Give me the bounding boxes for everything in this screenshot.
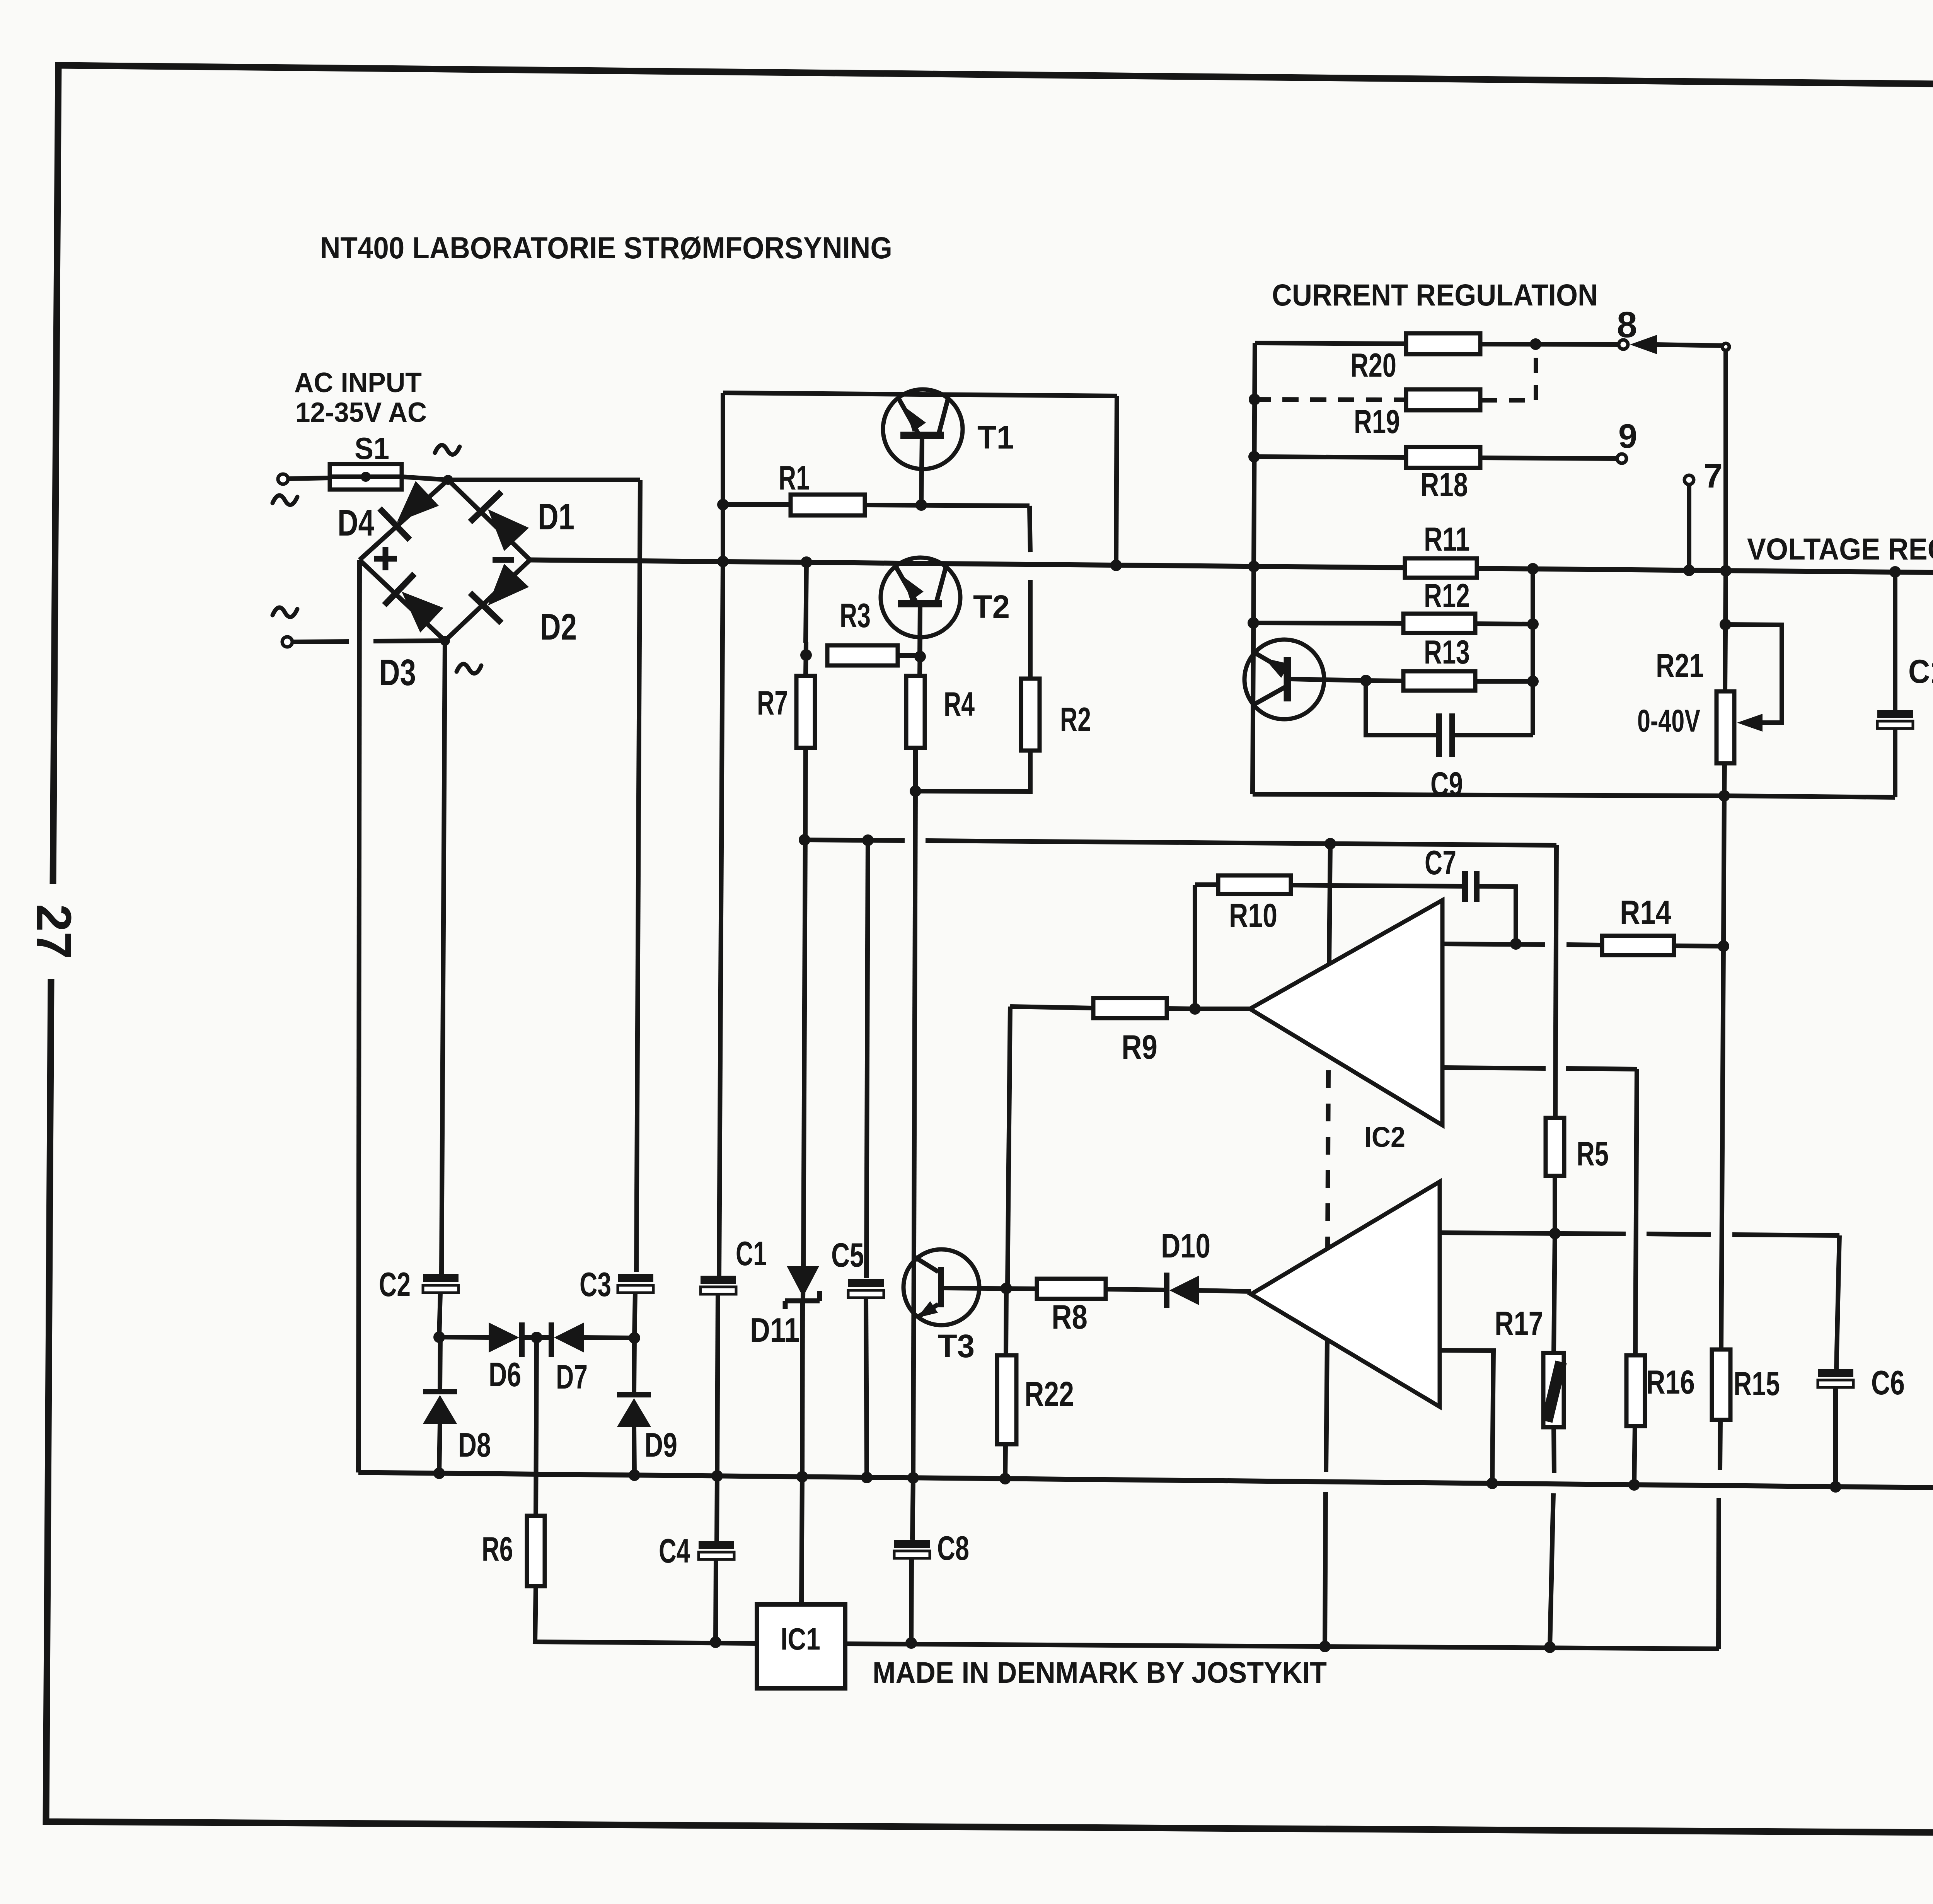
wire T2 base down to R4 [920,635,920,676]
terminal 7 [1684,475,1694,485]
wire opamp2 plus row (hops R16 and R21 lines) [1440,1233,1626,1234]
svg-text:IC2: IC2 [1364,1121,1405,1153]
node R19 rail [1249,394,1260,405]
tilde at bridge bottom [457,664,481,674]
zener diode D11 [803,1268,803,1298]
node bus/C10 [1889,566,1901,578]
wire opamp2 apex out [1249,1292,1253,1294]
svg-text:R7: R7 [757,684,788,722]
svg-text:R6: R6 [482,1530,513,1568]
node bus/R21 [1720,565,1732,577]
wire AC upper to fuse [288,478,330,479]
diode D2 [488,564,529,606]
wire R19 row (dashed) [1255,399,1407,400]
capacitor C3 [618,1274,653,1282]
resistor R13 [1403,671,1475,691]
op-amp IC2a [1250,900,1442,1125]
wire R9 left down to R8 node [1007,1007,1010,1288]
node top wire / R10C7 [1324,838,1336,850]
wire R1 to R2 (hops bus) [1030,506,1030,552]
transistor T1 [883,389,963,469]
svg-text:C5: C5 [831,1236,864,1274]
wire AC lower to bridge bottom [292,641,349,642]
wire output node to opamp1 apex [1195,1007,1250,1011]
svg-text:R13: R13 [1424,634,1470,671]
node R5/R17/opamp2 plus [1549,1228,1561,1239]
wire corner down to C3 [636,480,640,1272]
wire loop right vertical [1116,396,1117,565]
svg-text:C7: C7 [1425,843,1456,882]
svg-text:C10: C10 [1908,653,1933,690]
wire IC2 V- to IC1 (hops bottom bus) [1326,1340,1327,1472]
svg-text:CURRENT REGULATION: CURRENT REGULATION [1272,278,1598,312]
wiper arrow R21 [1737,714,1763,732]
wire R13 row [1366,681,1403,681]
node R8/R22 [1001,1283,1012,1294]
resistor R8 [1037,1279,1106,1299]
wire main bus (bridge minus to terminal 0) [530,560,1933,575]
node R4/R2 junction [910,785,921,797]
transistor T3 [903,1249,979,1325]
svg-text:D7: D7 [556,1358,588,1396]
resistor R12 [1403,614,1475,633]
wire fuse to bridge top [402,477,448,480]
node bus/opamp2 minus [1486,1477,1498,1489]
svg-text:D10: D10 [1161,1227,1210,1265]
svg-text:VOLTAGE REGULATION: VOLTAGE REGULATION [1747,532,1933,566]
svg-text:T1: T1 [977,419,1014,456]
wire C9 right leg [1454,733,1533,737]
tilde lower input [273,607,297,617]
capacitor C10 [1893,572,1897,710]
node bus/R7 [801,556,812,568]
wire R21 line continues down [1721,796,1724,1350]
wire bus to C4 [717,1476,717,1541]
wire opamp1 minus row (hops R5 line) [1442,1068,1546,1068]
diode D3 [402,592,443,633]
node R18 rail [1248,451,1260,462]
svg-text:D8: D8 [458,1426,491,1464]
wire block rail (left) [1253,343,1255,794]
svg-text:R17: R17 [1495,1305,1543,1342]
wire T1 collector loop top [723,393,1117,396]
wire R10 branch vertical [1193,885,1197,1009]
node wiper/top [1720,619,1731,630]
diode D7 [549,1322,554,1357]
wire R8 to D10 [1106,1289,1165,1290]
resistor R1 [791,495,865,515]
wire D6 bar to middle [522,1335,551,1340]
node bus/D9 [629,1469,640,1481]
capacitor C2 [423,1274,459,1282]
wire C1 line (loop left down to C4) [719,561,723,1276]
node C2/D6 [433,1331,445,1343]
svg-text:C4: C4 [659,1532,690,1570]
wire R12 row [1253,623,1403,623]
svg-text:D3: D3 [379,652,416,693]
transistor T2 [881,558,960,637]
svg-text:D4: D4 [338,502,374,544]
terminal 8 [1619,340,1628,349]
svg-text:12-35V AC: 12-35V AC [295,397,427,428]
node IC2 V-/IC1 row [1319,1641,1331,1652]
wire middle to R6 [536,1338,537,1516]
wire R7 to D11 [803,748,806,1268]
diode D10 [1164,1273,1169,1308]
wire C5 to bottom bus [866,1298,867,1477]
node R17/IC1 row [1544,1641,1556,1653]
node R13 right [1527,676,1539,687]
svg-text:R5: R5 [1577,1135,1609,1173]
wire D6 row left [439,1337,489,1338]
wire R4 bottom to junction [913,748,918,791]
resistor R9 [1093,998,1167,1018]
svg-text:R16: R16 [1646,1364,1695,1401]
diode D1 [488,509,529,551]
node R12 right [1527,618,1539,630]
resistor R18 [1406,447,1480,468]
wire IC1 right row [845,1644,1719,1649]
svg-text:C2: C2 [379,1265,411,1303]
resistor R16 [1626,1355,1645,1426]
svg-text:C6: C6 [1871,1363,1905,1402]
plus sign [374,556,397,562]
svg-text:R8: R8 [1052,1298,1088,1336]
node bridge bottom [440,636,450,646]
svg-text:R21: R21 [1656,647,1704,684]
svg-text:D1: D1 [538,496,574,537]
minus sign [493,557,514,563]
wire junction down to T3 [913,791,915,1478]
svg-text:C9: C9 [1430,765,1463,803]
node T4/R13 [1360,675,1372,686]
svg-text:D9: D9 [644,1426,677,1464]
svg-text:7: 7 [1704,457,1723,495]
node block bottom / R21 [1718,790,1730,802]
svg-text:R12: R12 [1424,577,1470,614]
node bus/C6 [1830,1481,1841,1493]
svg-text:C3: C3 [580,1265,611,1303]
wire R5 to node [1553,1176,1557,1234]
wire terminal 7 to bus [1687,485,1691,570]
node bridge top [443,475,453,485]
svg-text:8: 8 [1617,304,1637,345]
wire R6 to IC1 [535,1586,757,1643]
svg-text:NT400 LABORATORIE STRØMFORSYNI: NT400 LABORATORIE STRØMFORSYNING [320,230,892,265]
node R14/R21 line [1718,940,1729,952]
resistor R2 [1021,679,1040,751]
svg-text:R18: R18 [1420,466,1468,503]
potentiometer R21 [1725,571,1726,691]
svg-text:9: 9 [1618,417,1637,455]
svg-text:R10: R10 [1229,897,1277,934]
terminal 9 [1617,454,1626,463]
node C8/IC1 row [905,1637,917,1649]
transistor T4 (current regulation) [1244,640,1324,719]
svg-text:C1: C1 [736,1234,767,1273]
op-amp IC2b [1251,1182,1440,1407]
wire down to R16 [1635,1069,1637,1355]
wire bridge plus down [358,560,360,1472]
node bus/terminal7 [1683,565,1695,576]
node T1 base / R1 [915,499,927,511]
wire R9 row [1010,1007,1093,1008]
wire opamp2 minus drop [1440,1350,1493,1483]
node bus/D11IC1 [796,1471,808,1483]
wire R15 line below bus to IC1 row [1718,1498,1719,1649]
wire wiper vertical to bus [1723,350,1728,571]
wire C9 left leg [1366,681,1437,735]
wire R12R13 rail vertical [1531,569,1535,735]
wire C4 to IC1 row [716,1559,716,1642]
node bus/R16 [1628,1479,1640,1491]
node R9/R10/output [1189,1003,1201,1015]
svg-text:R1: R1 [779,459,810,497]
node bus/R12R13 rail [1527,563,1539,575]
wire C2 to D6 node [439,1293,440,1337]
resistor R15 [1712,1350,1730,1420]
wire R20 row [1255,343,1407,344]
tilde upper input [273,495,297,505]
svg-text:IC1: IC1 [781,1622,820,1656]
svg-text:D6: D6 [489,1355,521,1394]
wire R1 row [723,502,791,507]
svg-text:MADE IN DENMARK BY JOSTYKIT: MADE IN DENMARK BY JOSTYKIT [873,1656,1327,1689]
svg-text:R4: R4 [944,685,975,723]
wire R5 feed from top wire [1555,845,1556,1118]
wire loop left vertical [721,393,725,561]
wire R3 left stub [806,642,806,676]
resistor R17 [1543,1353,1564,1427]
svg-text:R3: R3 [840,596,871,635]
node bus/R22 [999,1473,1011,1484]
resistor R14 [1602,936,1674,955]
svg-text:D11: D11 [750,1311,799,1349]
capacitor C4 [699,1541,734,1549]
wire C3 to D7 node [634,1293,635,1338]
wire opamp1 out row (hops R5 line) [1442,944,1545,945]
svg-text:R14: R14 [1620,894,1671,931]
bridge wiring [360,480,530,641]
capacitor C8 [912,1478,913,1540]
node R12 rail [1248,617,1259,629]
svg-text:27: 27 [26,904,81,959]
svg-text:R2: R2 [1060,700,1091,739]
svg-text:T3: T3 [938,1328,975,1364]
wire top feed (R7 line to R5 corner, hops T2 line) [805,840,905,841]
resistor R6 [527,1516,545,1586]
resistor R5 [1546,1118,1564,1176]
wire corner down to C6 [1836,1235,1839,1369]
node R1 left [717,499,729,510]
resistor R7 [796,676,815,748]
node bus/C8 [907,1472,919,1484]
svg-text:R22: R22 [1024,1375,1074,1414]
tilde at bridge top [435,445,460,455]
node bus/C5 [861,1472,873,1483]
wire bottom bus [358,1472,1933,1490]
wire block bottom [1253,794,1895,797]
svg-text:S1: S1 [355,431,389,466]
diode D6 [489,1322,519,1353]
node C4/IC1 row [710,1636,721,1648]
node bus/C1C4 [711,1470,723,1482]
node bus/loop right [1110,560,1122,571]
node C7/output [1510,938,1522,950]
terminal AC input lower [282,637,292,647]
node T2 base / R3 / R4 [914,651,926,662]
terminal wiper top [1722,343,1729,350]
arrow to contact 8 [1630,335,1657,354]
wire R3 to T2 base node [898,653,920,658]
capacitor C7 [1330,885,1462,886]
svg-text:T2: T2 [973,589,1010,625]
resistor R3 [827,645,898,665]
node D6/D7 middle [531,1332,542,1343]
node bus/D8 [433,1467,445,1479]
resistor R11 (in bus) [1405,558,1477,578]
wire R18 row [1254,457,1407,457]
node bus/left loop [717,556,729,567]
node top wire / C5 [862,834,874,846]
wire bridge bottom to C2 [441,641,445,1274]
svg-text:R19: R19 [1354,403,1400,440]
fuse/switch S1 [330,464,402,490]
wire D11 to bottom bus and IC1 [802,1303,803,1477]
svg-text:R20: R20 [1350,347,1396,384]
resistor R4 [906,676,925,748]
resistor R20 [1406,333,1480,354]
diode D9 [634,1338,634,1392]
resistor R22 [1006,1288,1006,1355]
node top wire / R7 line [799,834,810,846]
diode D8 [440,1337,440,1389]
svg-text:AC INPUT: AC INPUT [294,367,422,398]
wire R17 [1554,1234,1555,1353]
IC1 box [757,1604,845,1688]
dashed IC2 divider [1328,1070,1328,1251]
terminal AC input upper [278,474,288,484]
wire R2 bottom to junction [915,751,1030,792]
resistor R10 [1195,882,1217,887]
svg-text:R15: R15 [1734,1365,1780,1402]
capacitor C1 [701,1276,736,1284]
diode D4 [397,481,439,522]
capacitor C5 [848,1279,884,1287]
wire C1 to bottom bus [717,1294,718,1476]
wire R10/C7 input drop [1329,844,1330,964]
wire C5 feed down [866,840,868,1278]
svg-text:R9: R9 [1122,1028,1157,1066]
capacitor C9 [1436,713,1442,757]
resistor R19 [1406,389,1480,410]
node R3 left [800,649,812,661]
wire bridge top to C3 drop corner [448,478,640,482]
svg-text:R11: R11 [1424,521,1470,558]
wire R7 rail down from bus [806,562,806,643]
wire D7 row right [584,1338,634,1338]
node bus/block rail [1248,561,1260,572]
node R20/R19 link [1530,338,1541,350]
svg-text:C8: C8 [937,1529,969,1567]
capacitor C6 [1818,1369,1853,1377]
node C3/D9 [629,1332,640,1344]
wire R15 to bus hop [1720,1420,1720,1470]
svg-text:0-40V: 0-40V [1637,703,1700,739]
svg-text:D2: D2 [540,606,577,648]
